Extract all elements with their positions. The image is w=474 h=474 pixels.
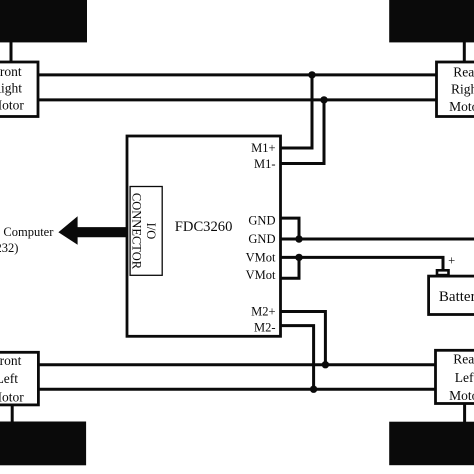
controller U1 FDC3260: [127, 136, 281, 336]
svg-text:Motor: Motor: [0, 389, 24, 404]
wire M1 lower (front-right to rear-right motors): [37, 98, 437, 101]
svg-text:Rear: Rear: [453, 65, 474, 80]
svg-text:Front: Front: [0, 64, 22, 79]
svg-text:Motor: Motor: [449, 388, 474, 403]
wire M2 lower (front-left to rear-left motors): [37, 388, 437, 391]
wire M1 upper (front-right to rear-right motors): [37, 73, 437, 76]
wheel rear-left: [389, 422, 474, 466]
svg-text:Front: Front: [0, 353, 22, 368]
junction M2+ on upper wire: [322, 361, 329, 368]
wire M1- branch: [281, 100, 325, 164]
svg-text:GND: GND: [248, 214, 275, 228]
battery + terminal: [437, 270, 449, 275]
svg-text:(RS232): (RS232): [0, 241, 18, 255]
wire wheel-to-front-right-motor: [10, 40, 13, 63]
wire wheel-to-rear-left-motor: [463, 402, 466, 423]
svg-text:VMot: VMot: [246, 251, 276, 265]
wire M2- branch: [281, 326, 314, 390]
wire GND pin2 (to right edge): [281, 238, 474, 241]
wire VMot pin1 to battery + terminal: [281, 257, 444, 270]
wheel front-right: [0, 0, 87, 42]
wire VMot pin2 bracket: [281, 256, 300, 278]
svg-text:FDC3260: FDC3260: [175, 219, 233, 235]
motor box: Front Right Motor: [0, 62, 38, 117]
wheel rear-right: [389, 0, 474, 42]
svg-text:+: +: [448, 254, 455, 268]
svg-text:VMot: VMot: [246, 268, 276, 282]
wire M2 upper (front-left to rear-left motors): [37, 363, 437, 366]
wheel front-left: [0, 422, 86, 466]
svg-text:Motor: Motor: [0, 97, 24, 112]
wire M1+ branch: [281, 75, 313, 148]
wire wheel-to-front-left-motor: [11, 403, 14, 423]
junction VMot: [295, 254, 302, 261]
svg-text:Computer: Computer: [3, 225, 54, 239]
junction M2- on lower wire: [310, 386, 317, 393]
I/O connector J1: [130, 187, 163, 276]
junction M1- on lower wire: [320, 96, 327, 103]
svg-text:Left: Left: [455, 370, 474, 385]
motor box: Rear Left Motor: [436, 350, 474, 403]
svg-text:GND: GND: [248, 232, 275, 246]
junction M1+ on upper wire: [308, 71, 315, 78]
svg-text:Left: Left: [0, 371, 18, 386]
svg-text:Rear: Rear: [453, 352, 474, 367]
svg-text:M1-: M1-: [254, 157, 276, 171]
wire wheel-to-rear-right-motor: [463, 40, 466, 63]
svg-text:Battery: Battery: [439, 289, 474, 305]
arrow to computer: [58, 216, 127, 244]
wire M2+ branch: [281, 312, 326, 365]
motor box: Front Left Motor: [0, 352, 38, 405]
battery B1: [429, 276, 474, 314]
svg-text:Right: Right: [0, 80, 22, 95]
motor box: Rear Right Motor: [437, 62, 474, 117]
wire GND pin1 bracket: [281, 218, 300, 239]
svg-text:Right: Right: [451, 82, 474, 97]
junction GND: [295, 235, 302, 242]
svg-text:M2+: M2+: [251, 305, 275, 319]
svg-text:M1+: M1+: [251, 141, 275, 155]
svg-text:Motor: Motor: [449, 99, 474, 114]
svg-text:M2-: M2-: [254, 320, 276, 334]
